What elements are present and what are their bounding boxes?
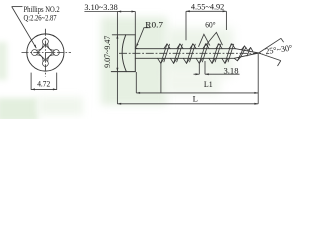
axis centerline side view: [119, 52, 263, 54]
taper tiny crest near tip: [248, 48, 253, 52]
taper top small crest: [241, 46, 247, 50]
watermark blob left-edge: [0, 42, 7, 80]
head crown arc: [122, 35, 126, 72]
thread start ext line: [160, 63, 162, 93]
angle 25-30 lower line: [259, 53, 281, 61]
arrow 3.18 right: [205, 73, 209, 75]
60 deg chevron left: [199, 34, 210, 47]
thread top crests: [164, 44, 235, 49]
dim 3.18 ext left: [198, 63, 200, 74]
watermark mid wash: [165, 28, 233, 76]
dim 3.18 ext right: [204, 61, 206, 74]
svg-text:4.55~4.92: 4.55~4.92: [191, 2, 224, 12]
taper diagonal 2: [240, 48, 246, 58]
dim 4.55-4.92 line: [186, 10, 226, 12]
arrow 3.18 left: [196, 73, 200, 75]
arrow 3.10 right: [132, 11, 136, 13]
watermark blob bottom-left: [0, 98, 38, 122]
angle 25-30 lower tick: [278, 61, 281, 66]
arrow 3.10 left: [117, 11, 121, 13]
svg-text:25°~30°: 25°~30°: [265, 42, 294, 56]
taper bottom line: [234, 53, 258, 58]
taper bottom small crest: [234, 57, 240, 60]
dim 3.18 tail left: [194, 73, 200, 75]
recess lobe S: [42, 60, 48, 66]
svg-text:Q:2.26~2.87: Q:2.26~2.87: [24, 12, 58, 22]
leader phillips diagonal: [12, 7, 37, 49]
fillet under head: [135, 46, 138, 49]
dim L1 line: [136, 92, 258, 94]
dim 4.55-4.92 ext right: [225, 11, 227, 30]
leader R0.7: [136, 28, 150, 47]
arrow L1 left: [136, 92, 140, 94]
thread helix partner diagonals: [164, 44, 234, 62]
recess lobe N: [42, 39, 48, 45]
thread bottom crests: [158, 58, 229, 63]
shank top line: [135, 48, 235, 50]
arrow L1 right: [254, 92, 258, 94]
svg-text:3.18: 3.18: [224, 66, 239, 76]
dim 4.55-4.92 ext left: [185, 11, 187, 40]
centerline circle horizontal: [22, 52, 72, 54]
head side view top edge: [112, 34, 135, 36]
arrow leader phillips: [34, 45, 36, 49]
watermark lower-mid wash: [165, 70, 220, 95]
arrow 4.72 left: [31, 88, 35, 90]
shank bottom line: [135, 57, 234, 59]
svg-text:4.72: 4.72: [37, 79, 50, 89]
60 deg chevron right: [206, 32, 223, 45]
angle 25-30 upper line: [259, 38, 281, 53]
dim 3.10-3.38 line: [84, 11, 135, 13]
taper top line: [236, 49, 259, 53]
svg-text:60°: 60°: [205, 20, 216, 30]
head side view bottom edge: [111, 71, 135, 73]
dim L1 ext left: [135, 72, 137, 93]
recess inner diamond: [38, 45, 53, 60]
leader phillips landing: [12, 6, 23, 8]
thread helix diagonals: [161, 44, 231, 64]
dim 4.72 ext left: [30, 73, 32, 90]
arrow 4.55 left: [186, 10, 190, 12]
svg-text:Phillips NO.2: Phillips NO.2: [24, 4, 60, 14]
arrow 4.72 right: [53, 88, 57, 90]
arrow R0.7: [136, 44, 138, 47]
svg-text:R0.7: R0.7: [145, 19, 163, 29]
recess star outline: [36, 44, 54, 62]
taper diagonal 1: [237, 46, 244, 61]
svg-text:3.10~3.38: 3.10~3.38: [84, 2, 117, 12]
head circle front view: [27, 34, 64, 71]
dim 4.72 ext right: [56, 73, 58, 90]
arrow L right: [254, 103, 258, 105]
arrow head dia bottom: [116, 68, 118, 72]
svg-text:L: L: [193, 94, 198, 104]
arrow 4.55 right: [223, 10, 227, 12]
arrow L left: [117, 103, 121, 105]
arrow head dia top: [116, 35, 118, 39]
svg-text:9.07~9.47: 9.07~9.47: [102, 35, 112, 68]
angle 25-30 upper tick: [281, 38, 284, 42]
taper diagonal 3: [247, 48, 251, 57]
recess lobe W: [32, 50, 38, 56]
watermark main band: [101, 17, 167, 105]
dim L line: [117, 103, 258, 105]
watermark blob bottom-mid faint: [38, 97, 83, 115]
dim 3.10-3.38 ext right: [134, 12, 136, 35]
svg-text:L1: L1: [204, 79, 213, 89]
tip ext line: [257, 54, 259, 104]
dim 3.18 line right: [205, 73, 240, 75]
recess lobe E: [53, 50, 59, 56]
dim 3.10-3.38 ext left / head dia dim line: [116, 12, 118, 104]
dim 4.72 line: [31, 88, 57, 90]
centerline circle vertical: [44, 29, 46, 77]
head front face: [134, 35, 136, 72]
